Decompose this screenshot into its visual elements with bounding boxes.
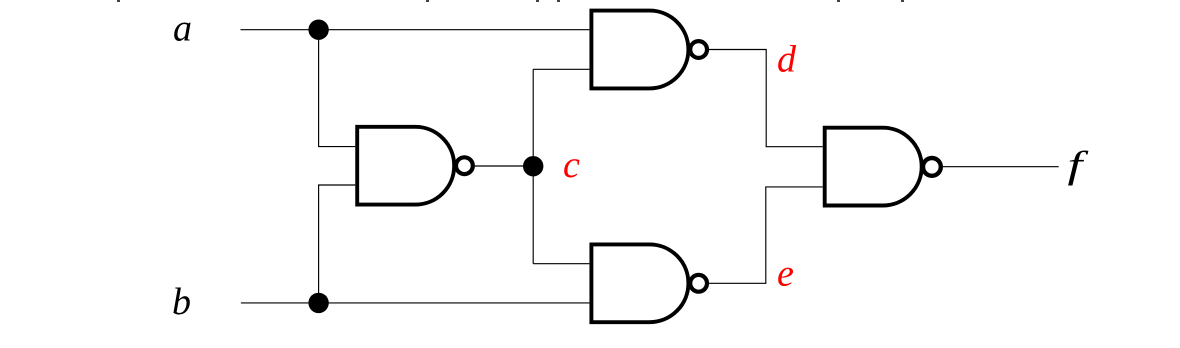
svg-text:c: c — [563, 144, 580, 186]
svg-text:a: a — [173, 8, 192, 50]
svg-text:d: d — [777, 38, 797, 80]
svg-text:b: b — [172, 281, 191, 323]
svg-text:e: e — [777, 252, 794, 294]
